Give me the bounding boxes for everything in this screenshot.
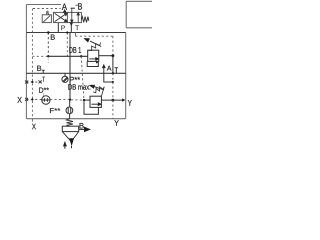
T line with down arrow <box>70 23 72 33</box>
valve spring right <box>81 17 88 23</box>
plate top edge <box>126 0 152 2</box>
label B box <box>80 123 84 128</box>
node dot B top <box>47 31 49 33</box>
x mark on edge row2 <box>25 98 28 101</box>
label X left <box>17 97 21 103</box>
B arrow right <box>79 127 90 131</box>
arrow to A on mid channel <box>103 65 105 73</box>
node dot DB1 outlet <box>112 54 115 57</box>
node dot Y junction <box>112 99 115 102</box>
flow up arrow <box>64 142 67 149</box>
channel P horizontal H1 <box>26 32 125 34</box>
label F** <box>50 108 60 113</box>
DBmax drain U loop <box>84 100 98 114</box>
block top edge short dash right <box>75 4 78 6</box>
label P <box>61 26 65 31</box>
gauge circle D <box>42 96 50 104</box>
directional valve body <box>53 12 81 22</box>
Y drain dashed vertical upper <box>112 73 114 100</box>
label A mid <box>107 66 112 71</box>
node dot A junction <box>112 72 114 74</box>
node dot DBmax branch <box>80 55 82 57</box>
check valve seat V <box>62 132 78 142</box>
Y port arrowhead <box>122 98 125 101</box>
label A top <box>62 4 67 10</box>
port A arrow up <box>64 10 66 13</box>
label X bottom <box>32 124 36 130</box>
A bypass loop below channel <box>104 73 113 82</box>
B channel drop dashed <box>47 33 49 57</box>
DBmax spring link to square <box>101 87 104 97</box>
label Y bottom <box>114 120 118 126</box>
row1 end bar <box>42 76 45 78</box>
plug right on mid channel <box>115 68 118 74</box>
valve straight arrows right square <box>71 8 80 22</box>
top right plate rectangle <box>126 1 152 28</box>
label D** <box>39 88 49 93</box>
relief valve DBmax square <box>90 96 101 107</box>
label a solenoid <box>46 11 49 14</box>
vertical DB1 outlet to A junction <box>112 56 114 74</box>
row2 dashed circle to T line <box>50 99 69 101</box>
block right edge <box>125 33 127 119</box>
channel A mid horizontal <box>26 72 125 74</box>
node dot row2 <box>31 98 33 100</box>
DBmax internal arrow <box>92 103 101 106</box>
DB1 internal arrow <box>89 58 98 61</box>
gauge circle P <box>62 73 68 82</box>
label DB max. <box>68 84 90 89</box>
top dashed interface line <box>33 8 61 10</box>
label B mid <box>37 66 41 71</box>
DB1 pilot path <box>75 33 113 56</box>
block top edge <box>26 4 61 6</box>
node dot DBmax inlet <box>83 99 85 101</box>
DBmax adjust arrow <box>90 85 104 90</box>
DB1 spring <box>89 43 101 51</box>
X port row 2 dashed <box>26 99 41 101</box>
poppet tail <box>71 146 73 148</box>
node dot on T line <box>69 99 71 101</box>
x mark inner row1 <box>39 80 42 83</box>
DBmax outlet line to Y <box>101 99 122 101</box>
node dot A bypass <box>112 81 114 83</box>
valve crossed arrows left square <box>55 13 68 22</box>
row1 plugged up turn <box>43 77 45 82</box>
DB1 drain U loop <box>87 61 98 66</box>
H2 channel to DB1 <box>48 55 87 57</box>
D circle top stub <box>43 93 45 96</box>
node dot on H1 <box>66 31 68 33</box>
DBmax inlet line <box>84 99 90 101</box>
T channel vertical down to gauge F <box>69 33 71 100</box>
check valve box <box>62 126 78 131</box>
label Y right <box>128 100 132 106</box>
manifold block outline <box>26 5 125 119</box>
node dot B bottom <box>47 55 49 57</box>
Y drain dashed vertical lower <box>112 100 114 119</box>
X port row 1 dashed <box>26 81 43 83</box>
solenoid box a <box>42 15 51 23</box>
plate left edge <box>125 1 127 28</box>
dashed vertical H1 to H2 <box>66 33 68 57</box>
X pilot branch to B node <box>32 55 48 57</box>
label T <box>75 25 79 30</box>
x mark on edge row1 <box>25 81 28 84</box>
B stub dashes below node <box>47 59 49 63</box>
DBmax spring <box>93 87 104 93</box>
label B channel <box>51 35 55 40</box>
label B top <box>78 3 82 9</box>
plug B_T on mid channel <box>42 70 45 73</box>
node dot row1 <box>31 81 33 83</box>
DBmax pilot vertical <box>81 56 84 100</box>
gauge circle F <box>66 107 73 114</box>
P drop line <box>57 23 59 33</box>
X pilot stub below block <box>31 119 33 122</box>
relief valve DB1 square <box>88 50 99 61</box>
DB1 outlet line <box>99 55 113 57</box>
X pilot dashed vertical <box>31 9 33 119</box>
block left edge <box>25 5 27 119</box>
DB1 adjust arrow <box>85 39 102 47</box>
T channel below gauge F to bottom <box>69 114 71 119</box>
valve plug bar top <box>71 7 75 9</box>
label DB 1 <box>69 47 81 53</box>
check valve poppet <box>69 138 74 146</box>
label P** <box>70 77 80 83</box>
plate bottom edge <box>126 27 152 29</box>
DB1 U loop arrowhead <box>96 61 98 63</box>
block bottom edge <box>26 118 125 120</box>
check valve spring <box>66 119 73 127</box>
row2 dashed T line to DBmax <box>71 99 83 101</box>
